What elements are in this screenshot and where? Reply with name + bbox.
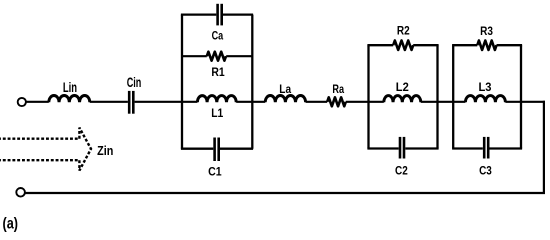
R1 branch wire (right) <box>226 55 252 57</box>
svg-text:C3: C3 <box>479 164 492 178</box>
capacitor C2 <box>400 137 404 159</box>
wire: Lin to Cin <box>90 101 128 103</box>
svg-text:La: La <box>279 82 291 96</box>
svg-text:R3: R3 <box>480 24 493 38</box>
block3 bottom wire (right of C3) <box>489 147 522 149</box>
svg-text:L1: L1 <box>211 106 223 120</box>
capacitor Ca <box>218 4 222 26</box>
svg-text:C1: C1 <box>208 164 222 178</box>
Zin arrow shaft bottom dashed line <box>0 159 79 161</box>
svg-text:Ra: Ra <box>332 82 344 96</box>
svg-text:Lin: Lin <box>63 80 77 95</box>
block2 top wire (left of R2) <box>367 44 393 46</box>
block1 top wire (right of Ca) <box>223 13 253 15</box>
block1 right edge <box>251 15 253 149</box>
wire: Ra to L2 (through block2 left edge) <box>346 101 384 103</box>
wire: right vertical <box>543 101 545 193</box>
block2 bottom wire (left of C2) <box>367 147 398 149</box>
inductor La <box>265 96 305 103</box>
inductor L2 <box>384 96 421 103</box>
capacitor C1 <box>215 138 219 162</box>
R1 branch wire (left) <box>182 55 207 57</box>
block2 right edge <box>436 45 438 148</box>
Zin arrow head dashed <box>79 128 91 171</box>
wire: block1 to La <box>236 101 265 103</box>
block3 right edge <box>520 45 522 148</box>
svg-text:Zin: Zin <box>97 143 113 158</box>
block1 top wire (left of Ca) <box>181 13 216 15</box>
resistor R1 <box>207 52 226 61</box>
output terminal bottom-left <box>16 188 25 197</box>
wire: bottom return <box>25 192 545 194</box>
Zin arrow shaft top dashed line <box>0 137 79 139</box>
inductor L1 <box>197 96 236 103</box>
block1 left edge <box>181 15 183 149</box>
block3 top wire (left of R3) <box>452 44 477 46</box>
wire: input terminal to Lin <box>26 101 49 103</box>
inductor L3 <box>465 96 505 103</box>
block2 left edge <box>367 45 369 148</box>
block2 bottom wire (right of C2) <box>405 147 438 149</box>
svg-text:R2: R2 <box>397 24 410 38</box>
block3 top wire (right of R3) <box>497 44 523 46</box>
wire: Cin to L1 (through block1 left edge) <box>135 101 198 103</box>
block3 bottom wire (left of C3) <box>452 147 483 149</box>
wire: L2 to L3 (between block2 and block3) <box>421 101 466 103</box>
svg-text:Ca: Ca <box>212 29 224 43</box>
wire: block3 to right corner <box>505 101 545 103</box>
svg-text:L2: L2 <box>396 80 409 94</box>
svg-text:L3: L3 <box>479 80 492 94</box>
input terminal top-left <box>18 98 26 106</box>
svg-text:(a): (a) <box>3 216 19 233</box>
resistor Ra <box>327 97 346 106</box>
block1 bottom wire (right of C1) <box>220 148 253 150</box>
inductor Lin <box>49 95 90 102</box>
svg-text:C2: C2 <box>395 164 408 178</box>
block1 bottom wire (left of C1) <box>181 148 213 150</box>
resistor R3 <box>477 41 496 50</box>
block3 left edge <box>452 45 454 148</box>
capacitor C3 <box>484 137 488 159</box>
wire: La to Ra <box>306 101 328 103</box>
svg-text:R1: R1 <box>211 65 224 79</box>
capacitor Cin <box>129 91 133 114</box>
resistor R2 <box>393 41 413 50</box>
svg-text:Cin: Cin <box>127 75 142 90</box>
block2 top wire (right of R2) <box>413 44 438 46</box>
